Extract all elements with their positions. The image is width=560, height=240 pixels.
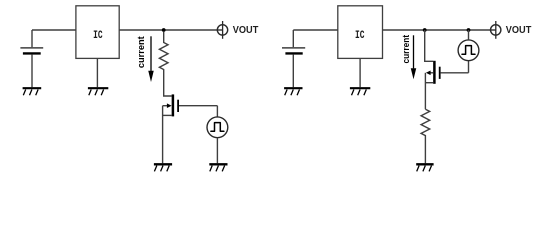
svg-text:IC: IC	[93, 30, 103, 42]
svg-text:VOUT: VOUT	[506, 25, 532, 36]
ground under R2	[416, 164, 433, 171]
gate wire to pulse source	[441, 72, 469, 74]
gate wire to pulse source	[179, 105, 217, 107]
capacitor C1	[20, 30, 43, 87]
VOUT port symbol (right)	[491, 21, 501, 39]
resistor R2	[421, 109, 430, 163]
pulse source V1	[207, 106, 228, 164]
ground under Q1 source	[154, 164, 172, 171]
resistor R1	[159, 32, 171, 96]
svg-text:current: current	[136, 35, 147, 68]
wire U1 output to VOUT port	[119, 29, 223, 31]
IC U2 (IC box)	[338, 6, 383, 59]
ground under C2	[284, 88, 302, 95]
gate bar	[439, 67, 441, 79]
ground under U1	[88, 59, 108, 96]
ground under C1	[23, 88, 42, 95]
svg-text:VOUT: VOUT	[233, 25, 258, 36]
body line + arrow into channel	[163, 105, 168, 107]
VOUT port symbol (left)	[217, 21, 227, 39]
source/body vertical down	[162, 106, 164, 164]
transistor Q2 (PMOS, gate right)	[425, 61, 468, 109]
body line + arrow away from channel	[430, 72, 433, 74]
pulse source V2	[458, 30, 479, 73]
capacitor C2	[282, 30, 305, 87]
gate bar	[177, 100, 179, 112]
node A (junction dot)	[162, 28, 166, 32]
source connection	[163, 114, 172, 116]
wire C2 to IC	[293, 29, 338, 31]
IC U1 (IC box)	[76, 6, 119, 59]
ground under V1	[209, 164, 227, 171]
ground under U2	[350, 59, 370, 96]
wire U2 output to VOUT port	[383, 29, 496, 31]
svg-text:current: current	[401, 34, 412, 63]
node C (junction dot, pulse source branch)	[467, 28, 471, 32]
transistor Q1 (NMOS, gate right)	[163, 94, 218, 163]
drain connection	[425, 82, 433, 84]
body/drain vertical down	[424, 73, 426, 109]
current direction arrow (left)	[148, 36, 154, 82]
node B (junction dot, drain branch)	[423, 28, 427, 32]
wire C1 to IC	[32, 29, 76, 31]
current direction arrow (right)	[411, 35, 417, 79]
channel bar	[172, 94, 175, 116]
channel bar	[433, 61, 436, 84]
svg-text:IC: IC	[355, 30, 365, 42]
wire node B down to Q2 source	[425, 30, 434, 61]
